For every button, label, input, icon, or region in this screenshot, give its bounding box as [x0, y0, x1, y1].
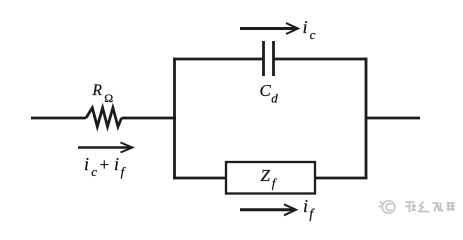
svg-text:Ω: Ω	[104, 91, 113, 105]
capacitor C_d left plate	[262, 41, 265, 76]
svg-text:+: +	[100, 155, 110, 174]
arrow i_c + i_f (left, below wire)	[78, 143, 132, 153]
svg-text:C: C	[260, 81, 272, 100]
svg-text:c: c	[310, 27, 316, 42]
wire right vertical branch	[365, 58, 368, 180]
svg-text:f: f	[309, 206, 315, 221]
svg-text:R: R	[92, 82, 103, 99]
svg-text:i: i	[303, 196, 308, 216]
svg-text:Z: Z	[261, 166, 271, 185]
label i_c	[303, 17, 316, 42]
wire bottom branch right segment	[315, 177, 367, 180]
label R_Omega	[92, 82, 114, 105]
wire top branch left segment	[173, 58, 263, 61]
wire left lead	[31, 117, 86, 120]
capacitor C_d right plate	[272, 41, 275, 76]
svg-text:i: i	[114, 154, 119, 174]
watermark text "研之成理" (drawn glyph blobs)	[405, 202, 455, 213]
watermark logo	[379, 201, 395, 213]
label i_c + i_f	[84, 154, 127, 179]
svg-text:i: i	[303, 17, 308, 37]
svg-text:i: i	[84, 154, 89, 174]
wire left vertical branch	[173, 58, 176, 180]
impedance Z_f box	[226, 162, 315, 194]
wire top branch right segment	[274, 58, 368, 61]
label i_f	[303, 196, 315, 221]
label C_d	[260, 81, 279, 106]
label Z_f	[261, 166, 278, 191]
svg-text:f: f	[121, 164, 127, 179]
wire resistor to left node	[122, 117, 177, 120]
svg-text:d: d	[271, 91, 278, 106]
arrow i_c (top)	[240, 23, 298, 34]
svg-text:c: c	[91, 164, 97, 179]
arrow i_f (bottom)	[240, 204, 296, 215]
resistor R_Omega zigzag	[86, 108, 122, 127]
wire bottom branch left segment	[173, 177, 226, 180]
wire right output lead	[366, 117, 420, 120]
